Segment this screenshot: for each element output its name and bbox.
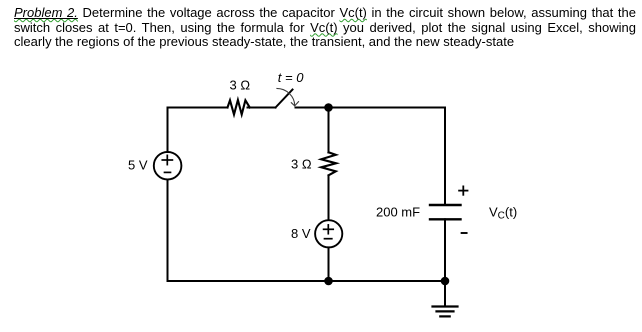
wire: capacitor to bottom-right node C (444, 219, 446, 281)
V2 plus sign (324, 225, 334, 234)
svg-text:3 Ω: 3 Ω (230, 78, 251, 93)
switch closing arrow (arc with arrowhead) (276, 88, 299, 106)
junction node B (bottom middle) (324, 277, 333, 286)
capacitor C1 200mF bottom plate (430, 218, 461, 220)
wire: switch right contact to node A (296, 107, 329, 109)
voltage source V2 8V (circle) (315, 220, 342, 247)
resistor R1 3Ω (top, zigzag) (228, 100, 250, 115)
switch SW1 (t=0) blade, open (276, 90, 293, 108)
wire: middle branch from node A down to R2 (328, 108, 330, 153)
svg-text:5 V: 5 V (128, 158, 148, 173)
svg-text:8 V: 8 V (291, 226, 311, 241)
wire: left branch lower (5V source to bottom-left corner) (167, 180, 169, 282)
wire: left branch upper (corner to 5V source) (167, 108, 169, 153)
junction node A (top middle) (324, 103, 333, 112)
wire: 8V source to bottom node B (328, 247, 330, 281)
V1 minus sign (165, 171, 171, 173)
capacitor polarity "+" label (459, 186, 467, 194)
svg-text:200 mF: 200 mF (376, 205, 420, 220)
wire: R2 to 8V source (328, 176, 330, 221)
V1 plus sign (162, 155, 172, 164)
wire: bottom horizontal (168, 280, 446, 282)
svg-text:VC(t): VC(t) (489, 205, 517, 222)
wire: ground stub (444, 281, 446, 307)
wire: right branch upper (top-right corner to capacitor) (444, 108, 446, 206)
voltage source V1 5V (circle) (154, 152, 182, 180)
wire: between R1 and switch (248, 107, 276, 109)
wire: node A to top-right corner (329, 107, 446, 109)
svg-text:3 Ω: 3 Ω (291, 157, 312, 172)
wire: top-left horizontal segment (168, 107, 228, 109)
junction node C (bottom right) (441, 277, 450, 286)
resistor R2 3Ω (middle, vertical zigzag) (321, 152, 336, 175)
svg-text:t = 0: t = 0 (278, 70, 304, 85)
capacitor polarity "-" label (462, 232, 467, 234)
capacitor C1 200mF top plate (430, 204, 461, 206)
ground symbol GND (433, 307, 458, 317)
V2 minus sign (325, 238, 332, 240)
